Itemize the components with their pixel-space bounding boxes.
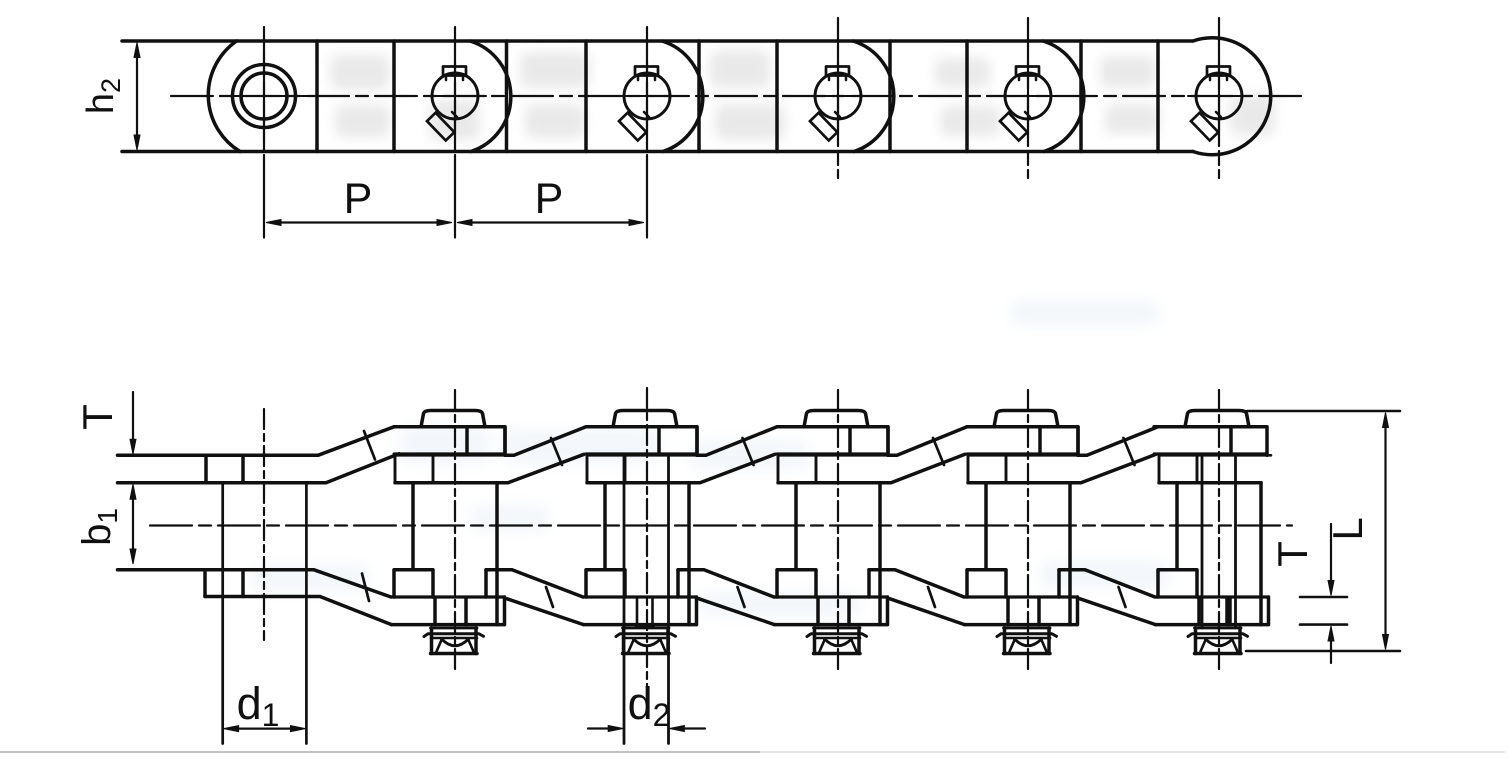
pin 5 lowered band internal edge a [1006,598,1010,625]
plan view: plate edge line 7 [888,41,892,152]
pin 4 seat line [778,454,897,457]
bushing at pin 3 right edge [687,483,691,625]
hole 5 link rounded end arc [1043,41,1084,152]
pin 3 raised sidebar end (band) [586,427,697,456]
pin 5 seat line [968,454,1087,457]
upper sidebar strap pin4-pin5 top edge [888,427,967,456]
pin 3 seat line [587,454,706,457]
weld tick on upper slope [1124,438,1135,465]
lower sidebar strap pin3-pin4 outer edge [699,599,775,625]
pin 2 lowered band internal edge a [433,598,437,625]
upper sidebar strap pin2-pin3 top edge [505,427,586,456]
pin 3 head cap [613,411,677,427]
pin 6 lowered band internal edge a [1197,598,1201,625]
faint blue watermark ghosts [250,300,1170,616]
lower sidebar strap pin4-pin5 inner edge [869,570,964,597]
faint scan smudges (plan view cells) [330,50,1275,140]
pin 5 upper flange bottom line [968,481,1070,485]
lower sidebar strap pin5-pin6 outer edge [1080,599,1156,625]
upper sidebar strap pin3-pin4 top edge [697,427,777,456]
hole 4 link rounded end arc [853,41,894,152]
plan view: plate edge line 6 [775,41,779,152]
svg-text:P: P [344,175,373,223]
pin 6 lowered band internal edge [1225,598,1229,625]
pin 2 seat line [395,454,514,457]
lower sidebar strap pin2-pin3 end edge [484,570,488,597]
pin 2 centerline [454,390,456,670]
L dimension bottom extension line [1246,650,1400,653]
lower sidebar strap pin4-pin5 outer edge [890,599,965,625]
pin 3 lower flange rect [586,570,625,597]
pin 6 lowered sidebar band bottom [1156,623,1268,627]
pin 3 cotter slot [636,598,654,627]
hole 3 link rounded end arc [662,41,703,152]
weld tick on lower slope [546,587,553,607]
lower sidebar strap pin4-pin5 end edge [867,570,871,597]
lower sidebar strap pin3-pin4 inner edge [678,570,774,597]
lower sidebar strap pin3-pin4 end edge [676,570,680,597]
pin 5 lowered band right step edge [1076,597,1080,625]
hole 3 vertical centerline [646,27,648,160]
pin 6 lowered band internal edge b [1228,598,1232,625]
bushing at pin 5 right edge [1068,483,1072,625]
plan view: plate edge line 5 [697,41,701,152]
side view: cut lower sidebar inner edge (left end) [118,570,392,597]
pin 5 lower flange rect [967,570,1006,597]
lower sidebar strap pin5-pin6 inner edge [1059,570,1155,597]
pin 6 retaining cluster (washer, pin end, cotter) [1194,628,1198,654]
pin 5 centerline [1027,390,1029,670]
pin 4 centerline [837,390,839,670]
plan view: chain band top edge [122,39,1193,43]
pin 4 lowered band internal edge b [847,598,851,625]
upper sidebar strap pin5-pin6 bottom edge [1070,454,1156,482]
pin 6 upper flange [1159,455,1197,482]
hole 5 pin circle with flat tab and cotter [997,62,1059,141]
lower sidebar strap pin2-pin3 inner edge [486,570,583,597]
pin 3 lowered sidebar band top [583,595,697,598]
side view: cut lower sidebar outer edge [205,597,392,625]
plan view: plate edge line 3 [505,41,509,152]
pin 2 raised sidebar end (band) [394,427,505,456]
pin 6 upper flange bottom line [1159,481,1261,485]
lower sidebar strap pin5-pin6 end edge [1057,570,1061,597]
hole 4 vertical centerline [837,18,839,178]
plan view: plate edge line 10 [1156,41,1160,152]
bushing at pin 3 left edge [603,483,607,570]
pin 6 lowered sidebar band top [1155,595,1269,598]
bushing at pin 6 left edge [1175,483,1179,570]
pin 4 raised sidebar end (band) [777,427,888,456]
side view: cut upper sidebar bottom edge (left end) [118,454,400,483]
svg-text:T: T [1269,541,1316,567]
hole 1 inner circle [241,73,287,119]
weld tick on lower slope [1119,587,1126,607]
pin 5 lowered band internal edge b [1037,598,1041,625]
pin 3 shaft right edge / d2 extension [667,455,670,743]
dimension d1 line with arrows [237,727,292,729]
pin 3 lowered band right step edge [695,597,699,625]
pin 4 lower flange rect [777,570,816,597]
pin 6 lower flange rect [1158,570,1197,597]
T dimension lower tick line [1300,623,1347,626]
bushing at pin 6 right edge [1259,483,1263,625]
plan view: plate edge line 1 [315,41,319,152]
weld tick on lower slope [738,587,745,607]
pin 5 head cap [994,411,1058,427]
weld tick on upper slope [933,438,944,465]
pin 2 lower flange rect [394,570,433,597]
pin 1 centerline [263,409,265,640]
pin 6 shaft right edge [1234,455,1237,628]
side view horizontal centerline [150,524,1292,526]
plan view: chain band bottom edge [122,150,1193,154]
pin 2 upper flange bottom line [395,481,497,485]
pin 4 lowered sidebar band top [774,595,888,598]
pin 6 centerline [1218,390,1220,670]
dimension d2 line with arrows [588,727,610,729]
pin 5 retaining cluster (washer, pin end, cotter) [1003,628,1007,654]
hole 3 pin circle with flat tab and cotter [616,62,678,141]
weld tick on lower slope [928,587,935,607]
pin 4 head cap [804,411,868,427]
plan view: plate edge line 9 [1079,41,1083,152]
pin 5 upper flange [968,455,1006,482]
pin 4 lowered sidebar band bottom [775,623,887,627]
bushing at pin 4 left edge [794,483,798,570]
pin 1 bushing flange edges (upper) [204,455,208,482]
hole 2 link rounded end arc [470,41,511,152]
bushing at pin 5 left edge [984,483,988,570]
hole 1 vertical centerline [263,27,265,160]
pin 6 shaft left edge [1201,455,1204,628]
hole 1 crosshair [263,51,265,141]
pin 6 seat line [1159,454,1271,457]
hole 2 vertical centerline [454,27,456,160]
pin 5 raised sidebar end (band) [967,427,1078,456]
hole 6 pin circle with flat tab and cotter [1188,62,1250,141]
hole 2 pin circle with flat tab and cotter [424,62,486,141]
pin 4 upper flange [778,455,816,482]
T dimension upper tick line [1300,596,1347,599]
pin 6 head cap [1185,411,1249,427]
pin 2 lowered band right step edge [503,597,507,625]
dimension b1 line with arrows [132,495,134,553]
pin 4 lowered band internal edge a [816,598,820,625]
side view: cut lower sidebar end edge [203,570,207,597]
bushing B1 left edge / d1 extension line [221,483,224,744]
pin 4 lowered band right step edge [886,597,890,625]
svg-text:T: T [74,404,121,430]
svg-text:P: P [535,175,564,223]
plan view: left link rounded end arc [208,41,240,152]
upper sidebar strap pin4-pin5 bottom edge [880,454,965,482]
bushing at pin 2 left edge [411,483,415,570]
dimension P line 2 [469,221,632,223]
pin 6 raised sidebar end (band) [1154,427,1267,456]
pin 3 lowered sidebar band bottom [584,623,696,627]
side view: weld tick on first upper slope [364,431,375,460]
pin 2 retaining cluster (washer, pin end, cotter) [430,628,434,654]
L dimension top extension line [1247,410,1400,413]
upper sidebar strap pin2-pin3 bottom edge [497,454,584,482]
dimension P line 1 [279,221,440,223]
pin 6 lowered band right step edge [1267,597,1271,625]
upper sidebar strap pin3-pin4 bottom edge [689,454,775,482]
plan view: right link rounded end arc [1193,38,1271,155]
hole 1 outer circle (bushing) [233,65,296,128]
dimension T (right) arrows [1330,524,1332,584]
pin 3 centerline [646,388,648,688]
pin 3 shaft left edge / d2 extension [623,455,626,743]
pin 3 retaining cluster (washer, pin end, cotter) [622,628,626,654]
pin 1 lower flange edge [241,570,245,597]
side view: weld tick on first lower slope [362,574,369,602]
pin 3 upper flange [587,455,625,482]
dimension h2 line with arrows [136,55,138,138]
bushing B1 right edge / d1 extension line [305,483,308,744]
side view: cut upper sidebar top edge (left end) [118,427,395,456]
hole 4 pin circle with flat tab and cotter [807,62,869,141]
pin 4 retaining cluster (washer, pin end, cotter) [813,628,817,654]
pin 5 lowered sidebar band bottom [965,623,1077,627]
weld tick on upper slope [743,438,754,465]
hole 5 vertical centerline [1027,18,1029,178]
plan view: plate edge line 4 [584,41,588,152]
pin 2 head cap [421,411,485,427]
pin 3 upper flange bottom line [587,481,689,485]
pin 2 upper flange [395,455,433,482]
dimension T (left) arrow [132,392,134,443]
dimension L line with arrows [1384,424,1386,638]
plan view: plate edge line 8 [965,41,969,152]
pin 2 lowered band internal edge b [464,598,468,625]
upper sidebar strap pin5-pin6 top edge [1078,427,1158,456]
scan artifact bottom strip [0,751,760,753]
hole 6 vertical centerline [1218,18,1220,178]
pin 2 lowered sidebar band top [391,595,505,598]
pin 5 lowered sidebar band top [964,595,1078,598]
bushing at pin 2 right edge [495,483,499,625]
lower sidebar strap pin2-pin3 outer edge [507,599,584,625]
plan view: plate edge line 2 [392,41,396,152]
bushing at pin 4 right edge [878,483,882,625]
weld tick on upper slope [551,438,562,465]
pin 4 upper flange bottom line [778,481,880,485]
plan view horizontal centerline [171,95,1303,97]
pin 2 lowered sidebar band bottom [392,623,504,627]
